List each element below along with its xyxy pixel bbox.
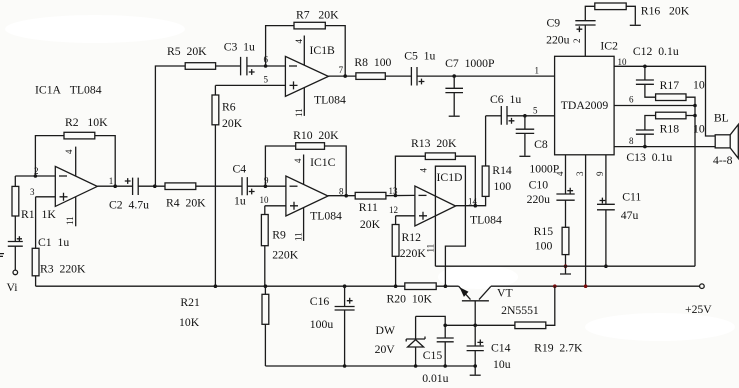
svg-text:R17: R17 [660, 79, 680, 92]
wire: rail B (lower) [265, 365, 474, 367]
svg-text:220K: 220K [272, 249, 299, 262]
op-amp IC1A triangle [55, 166, 97, 206]
svg-text:11: 11 [426, 244, 436, 253]
svg-text:7: 7 [339, 65, 344, 75]
svg-text:3: 3 [30, 187, 35, 197]
svg-text:2: 2 [572, 39, 582, 44]
wire: pin6 row [614, 105, 695, 107]
svg-text:6: 6 [629, 95, 634, 105]
svg-text:4: 4 [294, 39, 304, 44]
edge artifact left [0, 254, 4, 257]
capacitor C6 plates [501, 106, 507, 125]
svg-text:12: 12 [389, 205, 398, 215]
resistor R20 [405, 283, 436, 290]
svg-text:R9: R9 [272, 229, 286, 242]
R16 end bar [630, 24, 641, 26]
wire: R19 to +25V rail [546, 286, 555, 325]
node pin10/C12 [643, 65, 647, 69]
resistor R9 [264, 206, 266, 286]
capacitor C9 plates [575, 21, 595, 25]
IC1C pin 11 stub [303, 208, 305, 241]
svg-text:C12 0.1u: C12 0.1u [633, 45, 679, 58]
svg-text:R16 20K: R16 20K [641, 5, 690, 18]
capacitor C5 plates [411, 67, 417, 86]
resistor R3 [35, 197, 37, 286]
node IC1A out [113, 184, 117, 188]
svg-text:C11: C11 [622, 191, 641, 204]
svg-text:C15: C15 [423, 349, 443, 362]
IC2 pin4 column: C10 [565, 155, 567, 266]
svg-text:Vi: Vi [7, 281, 19, 294]
IC1B plus [290, 81, 298, 89]
capacitor C4 plates [242, 177, 247, 195]
wire: pin2 column to C9 [585, 6, 595, 56]
C8 end bar [519, 155, 530, 157]
resistor R11 [355, 192, 386, 199]
svg-text:220u: 220u [527, 193, 551, 206]
wire: IC1D pin12 row [396, 215, 415, 217]
IC1A minus [59, 175, 67, 177]
svg-text:20V: 20V [375, 343, 396, 356]
op-amp IC1B triangle [285, 56, 328, 96]
node 8 [344, 194, 348, 198]
zener DW [406, 316, 425, 366]
svg-text:2N5551: 2N5551 [501, 304, 539, 317]
wire: C4 to IC1C minus input [247, 185, 286, 187]
capacitor C13 [636, 130, 654, 147]
wire: riser to R5 [155, 66, 185, 186]
svg-text:4: 4 [419, 168, 429, 173]
wire: IC1C output to R11 [328, 195, 355, 197]
svg-text:R11: R11 [359, 201, 378, 214]
svg-text:47u: 47u [621, 209, 639, 222]
wire: IC1B pin5 row [215, 84, 285, 86]
node C7 junction [452, 74, 456, 78]
capacitor C12 [636, 66, 656, 97]
IC1A pin 11 stub [75, 197, 77, 227]
wire: bias rail A [36, 285, 459, 287]
svg-text:+25V: +25V [685, 303, 712, 316]
svg-text:0.01u: 0.01u [422, 372, 448, 385]
svg-text:20K: 20K [222, 117, 243, 130]
svg-text:R12: R12 [402, 231, 422, 244]
svg-text:1: 1 [109, 176, 114, 186]
svg-text:9: 9 [595, 171, 605, 176]
ground symbol below C14 [470, 374, 481, 376]
node C11/rail [604, 264, 608, 268]
svg-text:5: 5 [264, 75, 269, 85]
wire: pin5 row to C6 [486, 115, 502, 117]
node C8 junction [523, 114, 527, 118]
node IC1B out [343, 74, 347, 78]
wire: Vi/C1/R1 column [14, 176, 16, 270]
svg-text:C5 1u: C5 1u [404, 50, 435, 63]
svg-text:R1: R1 [21, 208, 35, 221]
svg-text:C3 1u: C3 1u [224, 41, 255, 54]
svg-text:220u: 220u [546, 34, 570, 47]
svg-text:10: 10 [618, 57, 628, 67]
capacitor C3 plates [241, 57, 247, 76]
svg-text:C6 1u: C6 1u [490, 93, 521, 106]
svg-text:1u: 1u [234, 195, 246, 208]
wire: C6 to IC2 pin5 [507, 115, 555, 117]
C5 polarity + [419, 79, 425, 85]
svg-text:220K: 220K [400, 247, 427, 260]
IC2 pin3 column to +25V rail [585, 155, 587, 286]
svg-text:R15: R15 [534, 225, 554, 238]
wire: pin10 row [614, 66, 715, 136]
wire: right column down to rail1 [694, 106, 696, 267]
svg-text:13: 13 [389, 186, 399, 196]
svg-text:C8: C8 [534, 138, 548, 151]
svg-text:11: 11 [294, 232, 304, 241]
IC1B pin 11 stub [303, 88, 305, 116]
svg-text:C13 0.1u: C13 0.1u [626, 151, 672, 164]
resistor R8 [356, 73, 385, 80]
svg-text:R18: R18 [660, 123, 680, 136]
svg-text:C14: C14 [491, 342, 511, 355]
svg-text:10: 10 [693, 79, 705, 92]
svg-text:C1 1u: C1 1u [38, 236, 69, 249]
capacitor C2 plates [133, 178, 139, 195]
svg-text:R2 10K: R2 10K [65, 116, 108, 129]
svg-text:R20 10K: R20 10K [387, 293, 433, 306]
svg-text:100: 100 [535, 240, 553, 253]
svg-text:11: 11 [294, 108, 304, 117]
node railB/C14 column [473, 364, 477, 368]
node railA/R6 [214, 284, 218, 288]
resistor R21 [264, 286, 266, 366]
svg-text:10: 10 [693, 123, 705, 136]
svg-text:4--8: 4--8 [713, 154, 733, 167]
node base [473, 324, 477, 328]
svg-text:14: 14 [468, 197, 478, 207]
svg-text:IC1A TL084: IC1A TL084 [35, 84, 102, 97]
wire: R2 feedback loop [35, 136, 115, 187]
svg-text:C10: C10 [529, 179, 549, 192]
resistor R7 [294, 22, 325, 29]
svg-text:IC2: IC2 [600, 40, 618, 53]
svg-text:VT: VT [497, 287, 513, 300]
node railA/R9/R21 [264, 284, 268, 288]
C3 polarity + [249, 69, 255, 75]
node rail2/pin3 [584, 284, 588, 288]
resistor R4 [165, 183, 196, 190]
wire: IC1D output row [456, 196, 486, 205]
svg-text:C9: C9 [547, 17, 561, 30]
wire: C3 to IC1B minus input [247, 65, 286, 67]
capacitor C16 [335, 286, 355, 366]
svg-text:8: 8 [629, 136, 634, 146]
ground symbol below R15 [560, 266, 571, 274]
svg-text:2: 2 [34, 166, 39, 176]
wire: R4 to C4 [196, 185, 242, 187]
wire: R7 feedback loop [266, 26, 346, 77]
resistor R17 [656, 94, 686, 101]
svg-text:R5 20K: R5 20K [167, 45, 207, 58]
wire: zener jog [416, 316, 446, 338]
transistor VT 2N5551 [459, 286, 471, 299]
svg-text:1: 1 [535, 66, 540, 76]
node rail2/R19 riser [553, 284, 557, 288]
resistor R19 [515, 322, 546, 329]
wire: base row [445, 324, 515, 326]
svg-text:10K: 10K [179, 316, 200, 329]
IC1B pin 4 stub [303, 36, 305, 66]
C10 polarity + [567, 188, 573, 194]
VT emitter arrow [460, 287, 469, 297]
resistor R18 [656, 112, 686, 119]
C4 polarity + [249, 189, 255, 195]
C2 polarity + [125, 178, 131, 184]
IC1D minus [419, 194, 427, 196]
svg-text:IC1C: IC1C [310, 156, 336, 169]
node 2 junction [34, 174, 38, 178]
capacitor C7 [445, 76, 463, 116]
op-amp IC1D triangle [415, 186, 456, 226]
wire: R17 right to pin6 node [686, 97, 695, 105]
svg-text:R21: R21 [180, 296, 200, 309]
svg-text:100: 100 [494, 180, 512, 193]
node C2/R4/R5 junction [153, 184, 157, 188]
capacitor C8 [516, 116, 535, 156]
resistor R10 [296, 143, 325, 150]
svg-text:TL084: TL084 [314, 94, 346, 107]
svg-text:8: 8 [339, 187, 344, 197]
resistor R2 [64, 132, 95, 139]
wire: IC1B output to R8 [328, 75, 356, 77]
wire: pin3 row [36, 196, 56, 198]
C1 polarity + [17, 236, 22, 241]
IC1A plus [60, 193, 68, 201]
white smudge bottom-right [585, 313, 735, 341]
resistor R14 [485, 116, 487, 166]
node railB/C15 [443, 364, 447, 368]
wire: IC1D supply loop left leg (pin4/11 rail) [435, 166, 465, 286]
wire: C5 to IC2 pin1 [417, 75, 555, 77]
svg-text:R6: R6 [222, 101, 236, 114]
node IC1D out [474, 204, 478, 208]
svg-text:4: 4 [64, 149, 74, 154]
white smudge near VT [438, 265, 518, 289]
svg-text:3: 3 [575, 171, 585, 176]
node railB/DW [414, 364, 418, 368]
wire: rail1 (ground rail) [435, 265, 695, 267]
wire: pin2 row [15, 175, 55, 177]
svg-text:10: 10 [260, 195, 270, 205]
svg-text:20K: 20K [360, 218, 381, 231]
svg-text:100u: 100u [310, 318, 334, 331]
svg-text:1K: 1K [42, 208, 57, 221]
resistor R13 [425, 153, 455, 160]
node R15/ground on rail [564, 264, 568, 268]
svg-text:C7 1000P: C7 1000P [445, 57, 495, 70]
svg-text:R14: R14 [492, 164, 512, 177]
resistor R1 [12, 186, 19, 216]
wire: R5 to C3 [216, 65, 241, 67]
wire: R16 right end [626, 6, 635, 24]
node pin9 [264, 184, 268, 188]
op-amp IC1C triangle [286, 176, 328, 216]
resistor R6 [214, 85, 216, 286]
terminal Vi [13, 270, 18, 275]
C11 polarity + [600, 198, 606, 204]
svg-text:IC1B: IC1B [310, 44, 336, 57]
terminal +25V [700, 284, 705, 289]
svg-text:R8 100: R8 100 [354, 56, 391, 69]
svg-text:R19 2.7K: R19 2.7K [534, 342, 583, 355]
node R18 right [693, 114, 697, 118]
node pin6 [693, 104, 697, 108]
resistor R16 [595, 3, 626, 10]
svg-text:R10 20K: R10 20K [293, 129, 339, 142]
C9 polarity + [577, 26, 583, 32]
wire: R13 feedback loop [395, 156, 475, 206]
wire: C2 to R4 [138, 185, 165, 187]
node pin6 [264, 64, 268, 68]
svg-text:C16: C16 [310, 295, 330, 308]
IC1B minus [289, 65, 297, 67]
wire: R10 feedback loop [265, 146, 346, 196]
node pin8/C13 [643, 145, 647, 149]
IC1C pin 4 stub [303, 155, 305, 185]
resistor R5 [185, 63, 215, 70]
svg-text:4: 4 [293, 158, 303, 163]
C6 polarity + [509, 118, 515, 124]
svg-text:R4 20K: R4 20K [166, 197, 206, 210]
C7 end bar [449, 115, 460, 117]
wire: R8 to C5 [385, 75, 411, 77]
speaker BL [715, 135, 730, 148]
node jog/base row [443, 324, 447, 328]
wire: +25V rail [491, 285, 700, 287]
node railA/emitter [444, 284, 448, 288]
wire: R11 to IC1D minus input [386, 194, 415, 196]
svg-text:TL084: TL084 [470, 214, 502, 227]
IC1D plus [419, 212, 427, 220]
node railA/R12 [394, 284, 398, 288]
svg-text:4: 4 [555, 171, 565, 176]
capacitor C1 plates [8, 242, 23, 247]
svg-text:TL084: TL084 [310, 210, 342, 223]
wire: R18 ends [645, 116, 695, 131]
C14 polarity + [477, 340, 483, 346]
svg-text:C4: C4 [233, 163, 247, 176]
svg-text:R13 20K: R13 20K [411, 137, 457, 150]
IC1C plus [290, 202, 298, 210]
node railA/C16 [343, 284, 347, 288]
capacitor C10 plates [556, 194, 574, 200]
svg-text:TDA2009: TDA2009 [561, 99, 609, 112]
wire: IC1C pin10 row [265, 205, 286, 207]
capacitor C11 plates [597, 204, 615, 210]
svg-text:C2 4.7u: C2 4.7u [109, 199, 149, 212]
capacitor C14 [467, 325, 484, 374]
capacitor C15 [437, 338, 454, 366]
resistor R15 [562, 227, 569, 254]
IC1A pin 4 stub [75, 147, 77, 177]
IC1C minus [290, 185, 298, 187]
svg-text:BL: BL [714, 112, 729, 125]
resistor R12 [395, 216, 397, 286]
svg-text:DW: DW [376, 324, 396, 337]
svg-text:10u: 10u [493, 358, 511, 371]
svg-text:R3 220K: R3 220K [40, 263, 86, 276]
node railB/C16 [343, 364, 347, 368]
wire: pin8 row to speaker [614, 146, 715, 148]
node 13 [394, 194, 398, 198]
white smudge top-left [5, 15, 185, 43]
wire: IC1A output row [97, 185, 132, 187]
svg-text:R7 20K: R7 20K [296, 9, 339, 22]
svg-text:IC1D: IC1D [437, 171, 463, 184]
svg-text:11: 11 [65, 216, 75, 225]
svg-text:5: 5 [533, 106, 538, 116]
IC2 box [555, 56, 615, 155]
C16 polarity + [347, 298, 353, 304]
IC2 pin9 column: C11 [605, 155, 607, 266]
